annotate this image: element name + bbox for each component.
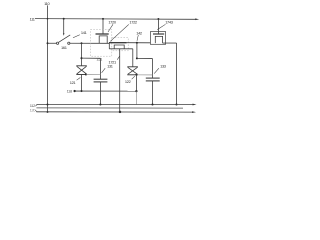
wire 1722 source bottom [109, 48, 133, 50]
svg-text:1721: 1721 [109, 59, 117, 64]
variable element 122 bottom plate [127, 74, 138, 76]
svg-text:151: 151 [96, 56, 102, 61]
transistor 1743 gate bar [153, 33, 164, 35]
capacitor 131 bottom plate [94, 81, 108, 83]
wire down to capacitor 133 [151, 58, 153, 78]
wire vertical from 110 down to bottom bus [47, 5, 49, 112]
capacitor 133 bottom plate [146, 80, 160, 82]
variable element 122 cross [128, 67, 138, 74]
wire 122 bottom lead [135, 75, 137, 91]
svg-text:161: 161 [61, 45, 67, 50]
switch 141 blade [59, 35, 70, 42]
transistor 1720 channel [99, 36, 107, 43]
wire node D2 right [137, 57, 153, 59]
svg-text:1720: 1720 [108, 19, 117, 24]
leader 141 [73, 35, 80, 38]
leader 131 [102, 68, 106, 73]
wire 1722 drain down to bus2 [119, 49, 121, 112]
capacitor 131 top plate [94, 78, 108, 80]
wire step down to 1722 [108, 43, 110, 49]
junction bus3/110-line [47, 111, 49, 113]
leader 133 [154, 68, 159, 73]
svg-text:133: 133 [160, 63, 167, 68]
transistor 1743 channel [155, 36, 162, 43]
arrowhead bus 120 [192, 111, 196, 113]
arrowhead top rail end [195, 18, 199, 20]
svg-text:118: 118 [67, 89, 73, 94]
wire node B right [82, 57, 101, 59]
terminal dot 118 [73, 90, 75, 92]
wire cap 131 bottom lead [99, 82, 101, 105]
svg-text:120: 120 [30, 107, 37, 112]
wire 1722 down to element 122 [132, 49, 134, 67]
capacitor 133 top plate [146, 77, 160, 79]
wire node D down [136, 43, 138, 59]
switch 141 left contact [57, 42, 59, 44]
junction on 122 bottom plate [135, 74, 137, 76]
svg-text:122: 122 [125, 79, 131, 84]
leader 1722 [110, 24, 129, 41]
svg-text:1722: 1722 [129, 19, 137, 24]
tick label 120 [35, 110, 37, 111]
variable element 122 top plate [127, 66, 138, 68]
svg-text:141: 141 [81, 30, 87, 35]
svg-text:1743: 1743 [165, 19, 174, 24]
transistor 1722 gate bar [109, 42, 127, 44]
leader 1721 [117, 56, 119, 60]
svg-text:142: 142 [136, 30, 142, 35]
bus line 120 [36, 107, 183, 109]
wire cap 133 bottom lead [152, 81, 154, 105]
junction node D [136, 42, 138, 44]
transistor 1720 gate bar [96, 33, 109, 35]
wire down to capacitor 131 [99, 58, 101, 79]
variable element 121 cross [77, 66, 87, 74]
variable element 121 bottom plate [76, 74, 87, 76]
junction 110-line/switch wire [47, 42, 49, 44]
junction wire/bus1 [175, 103, 177, 105]
transistor 1720 gate feed [102, 19, 104, 34]
wire to switch [48, 42, 57, 44]
svg-text:110: 110 [44, 1, 50, 6]
arrowhead switch control [63, 33, 65, 36]
junction rail/110 [47, 18, 49, 20]
transistor 1743 gate feed [157, 19, 159, 34]
wire 121 bottom lead [81, 75, 83, 92]
junction right end wire91 [135, 90, 137, 92]
junction 1722-drain/bus2 [119, 111, 122, 114]
wire top rail 111 [35, 18, 197, 21]
box around 1743 [150, 32, 165, 45]
leader 121 [77, 78, 81, 81]
wire switch control vertical [63, 19, 65, 34]
leader 1720 [108, 24, 113, 32]
dashed box around 1722 [112, 38, 128, 51]
wire switch to transistor 1720 [70, 42, 109, 44]
junction 121 lead / wire91 [80, 90, 82, 92]
wire 1722 gate to 1743 [127, 42, 151, 44]
transistor 1722 channel [114, 45, 124, 49]
junction bus1/110-line [47, 104, 49, 106]
junction rail/switch-control [63, 18, 65, 20]
junction node B [80, 57, 82, 59]
switch 141 right contact [68, 42, 70, 44]
svg-text:121: 121 [70, 80, 76, 85]
junction rail/gate 1720 [102, 18, 104, 20]
variable element 121 top plate [76, 65, 87, 67]
svg-text:131: 131 [107, 64, 113, 69]
wire 122 bottom to cap 133 lead [136, 74, 152, 76]
wire node C horizontal y91 [75, 90, 137, 92]
wire down to bus1 right [176, 43, 178, 104]
junction rail/gate 1743 [157, 18, 159, 20]
wire 122 lead to bus [135, 91, 137, 104]
leader 1743 [157, 24, 165, 29]
wire node A down [81, 43, 83, 66]
leader 122 [132, 76, 135, 79]
junction node D2 [136, 57, 138, 59]
svg-text:111: 111 [30, 16, 35, 21]
bus line 112 [36, 104, 193, 106]
arrowhead bus 112 [193, 104, 197, 106]
tick label 112 [35, 105, 37, 107]
wire 121 bottom to cap 131 lead [86, 74, 101, 76]
junction bus1/cap133 [151, 103, 153, 105]
wire 1743 drain right [163, 42, 177, 44]
junction on 121 bottom plate [85, 74, 87, 76]
dashed box around 1720 [90, 30, 111, 57]
junction node A on switch wire [81, 42, 83, 44]
bus line 120 lower [36, 111, 193, 113]
leader 142 [137, 35, 138, 41]
junction bus1/cap131 [99, 103, 101, 105]
